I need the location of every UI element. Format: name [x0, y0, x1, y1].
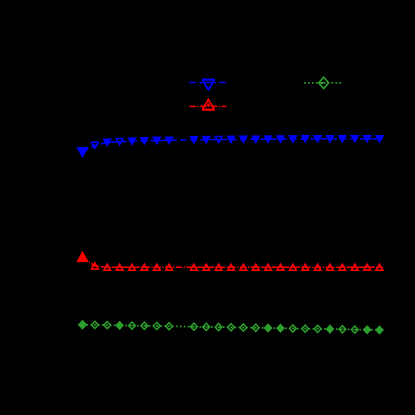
red series dash-dot line — [83, 257, 380, 267]
legend blue entry: dashed line handle — [189, 82, 227, 84]
legend blue entry: triangle-down marker with errorbar — [202, 78, 215, 80]
green series markers (diamond) — [79, 321, 86, 329]
blue series dashed line — [83, 139, 380, 153]
red series markers (triangle-up) — [78, 252, 88, 261]
blue series markers (triangle-down) — [78, 148, 88, 157]
legend green entry: dotted line handle — [304, 82, 341, 84]
legend green entry: diamond marker — [319, 77, 329, 88]
legend red entry: triangle-up marker with errorbar — [202, 109, 215, 111]
legend red entry: dash-dot line handle — [190, 105, 227, 107]
green series dotted line — [83, 325, 380, 330]
